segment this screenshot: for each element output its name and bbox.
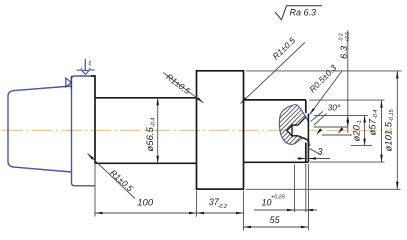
- wire blue cloud boundary (bottom branch): [279, 105, 310, 147]
- svg-text:-0.2: -0.2: [218, 204, 227, 210]
- wire machined face lower: [305, 143, 307, 163]
- wire extension 6.3 bottom y127: [314, 126, 349, 128]
- wire angle diagonal 1: [311, 112, 324, 122]
- wire extension collar bottom y188.4: [246, 188, 401, 190]
- node arrow 10 left (outside): [287, 209, 295, 212]
- wire dim line 10: [254, 209, 317, 211]
- wire hole bottom chamfer: [298, 136, 308, 140]
- node centerline axis: [2, 130, 391, 132]
- wire right shaft bottom edge: [244, 161, 309, 163]
- node arrow phi20 bottom: [363, 139, 366, 146]
- svg-text:3: 3: [318, 147, 323, 157]
- wire extension hole depth x294.5: [294, 165, 296, 213]
- svg-text:-0.2: -0.2: [339, 33, 345, 42]
- wire hole top chamfer: [298, 117, 306, 126]
- wire stock face: [307, 114, 309, 163]
- wire extension collar top y70.7: [246, 70, 402, 72]
- node arrow leader R0.5: [310, 108, 315, 114]
- wire extension collar right x243.5: [243, 191, 245, 231]
- svg-text:30°: 30°: [328, 103, 341, 113]
- node arrow 37 left: [197, 212, 205, 215]
- wire extension phi20 bottom y145.4: [351, 144, 372, 146]
- node arrow phi20 top: [363, 116, 366, 123]
- wire leader R1 collar left fillet: [163, 73, 204, 103]
- node arrow angle lower right: [338, 127, 344, 134]
- node arrow 6.3 down-inside: [347, 120, 350, 127]
- wire flange right edge (black): [91, 76, 95, 163]
- wire right shaft top edge: [244, 99, 306, 101]
- wire dim line 6.3: [347, 30, 349, 133]
- wire lower angle extension line: [308, 148, 321, 155]
- wire blue flange outline: [72, 76, 96, 186]
- node arrow phi57 top: [380, 100, 383, 108]
- wire leader R1 flange fillet: [88, 154, 136, 199]
- node arrow 10 right (outside): [306, 209, 313, 212]
- wire extension shaft top right y97.5: [309, 99, 385, 101]
- svg-text:Ra 6.3: Ra 6.3: [290, 8, 317, 18]
- node arrow phi101.5 bottom: [396, 182, 399, 190]
- wire extension phi20 bottom y136.8: [322, 134, 352, 136]
- wire dim line 55: [244, 226, 309, 228]
- svg-text:100: 100: [137, 198, 154, 209]
- svg-text:+0.25: +0.25: [271, 194, 286, 200]
- wire dim line 37: [197, 212, 244, 214]
- node arrow 37 right: [236, 212, 244, 215]
- wire leader R0.5 hole edge: [310, 71, 342, 114]
- svg-text:+0.5: +0.5: [345, 32, 351, 42]
- node arrow 100 left: [95, 212, 103, 215]
- node support symbol on flange left face: [66, 76, 71, 89]
- wire collar rectangle: [197, 71, 244, 189]
- node arrow phi57 bottom: [380, 155, 383, 163]
- node arrow angle lower: [316, 128, 322, 135]
- wire extension machined face x305.8: [305, 164, 307, 212]
- node clamp count digit: [89, 61, 90, 66]
- svg-text:55: 55: [270, 215, 281, 225]
- node arrow phi101.5 top: [396, 71, 399, 79]
- wire dim line 3: [298, 158, 331, 160]
- wire extension line below flange face x95: [94, 164, 96, 217]
- node center hole white interior: [287, 116, 310, 141]
- node arrow 55 left: [244, 226, 252, 229]
- wire blue cone (raw stock taper, left): [8, 86, 72, 172]
- node arrow leader R1 collar right: [241, 97, 247, 103]
- wire dim line phi56.5: [157, 98, 159, 164]
- wire left shaft top edge: [95, 97, 197, 99]
- wire dim line 100: [95, 212, 197, 214]
- wire dim line phi57: [381, 100, 383, 162]
- wire angle diagonal 2: [314, 114, 327, 126]
- wire extension collar left x196.5: [196, 191, 198, 217]
- node clamp symbol on flange top: [77, 59, 95, 74]
- wire dim line phi101.5: [396, 71, 398, 189]
- node arrow 100 right: [189, 212, 197, 215]
- node arrow 3 left (outside): [298, 157, 306, 160]
- wire extension stock face x308.4: [307, 164, 309, 231]
- wire leader R1 collar right fillet: [241, 43, 305, 104]
- svg-text:10: 10: [262, 197, 272, 207]
- wire extension shaft bottom right y163.5: [310, 161, 385, 163]
- wire machined face upper: [305, 100, 307, 113]
- node arrow phi56.5 bottom: [156, 156, 159, 164]
- node arrow leader R1 flange: [88, 154, 94, 160]
- node center hole profile: [287, 125, 292, 136]
- node arrow 55 right: [301, 226, 309, 229]
- wire left shaft bottom edge: [95, 162, 197, 164]
- node arrow 6.3 up-inside: [347, 116, 350, 123]
- node arrow phi56.5 top: [156, 98, 159, 106]
- node roughness symbol Ra 6.3: [275, 6, 322, 20]
- node arrow 3 right (outside): [308, 157, 316, 160]
- wire dim line phi20: [364, 116, 366, 146]
- node arrow leader R1 collar left: [197, 97, 204, 103]
- svg-text:6.3: 6.3: [339, 45, 350, 59]
- wire blue cloud boundary (top branch): [296, 105, 308, 121]
- wire extension angle top y115.6: [314, 115, 368, 117]
